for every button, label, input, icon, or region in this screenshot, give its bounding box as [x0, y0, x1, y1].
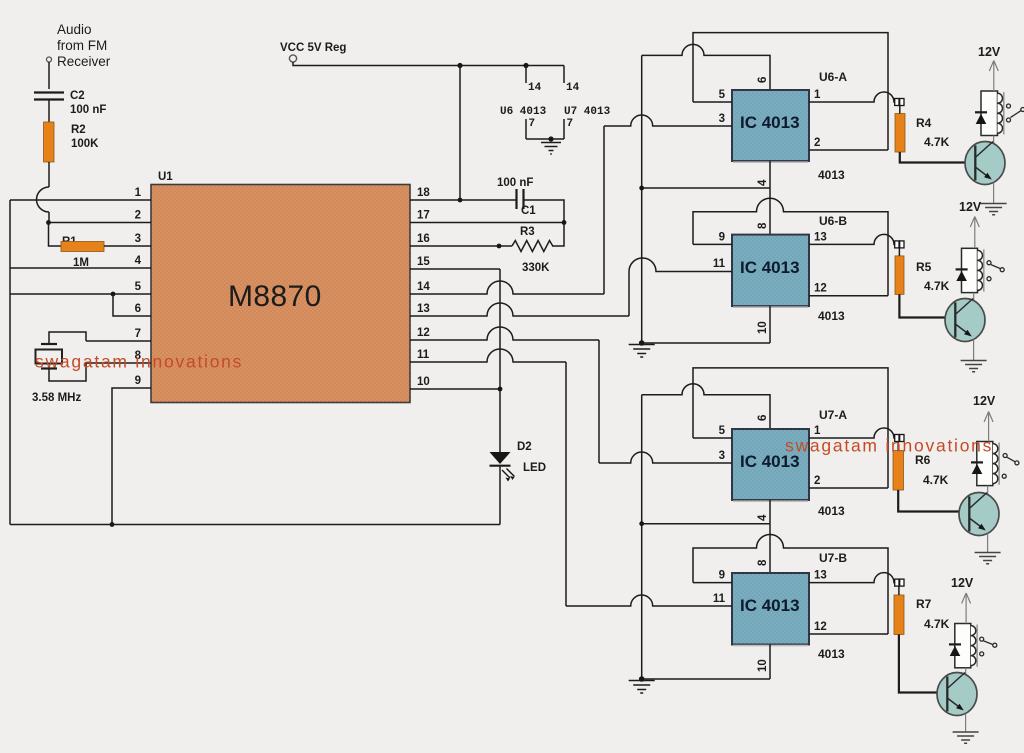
- svg-text:100K: 100K: [71, 138, 99, 150]
- pin label 11: [417, 349, 430, 361]
- wire pin 4 U6-A: [769, 161, 771, 188]
- svg-text:7: 7: [135, 328, 141, 340]
- label R6: [915, 453, 931, 467]
- svg-text:18: 18: [417, 187, 430, 199]
- svg-text:14: 14: [566, 82, 580, 94]
- resistor R1: [61, 242, 104, 252]
- label U6-B: [819, 214, 847, 228]
- wire U6 set-reset ground rail: [641, 55, 643, 343]
- label 4013 U7-B: [818, 647, 845, 661]
- svg-text:14: 14: [528, 82, 542, 94]
- svg-text:12V: 12V: [951, 576, 974, 590]
- wire pin 5 U7-A: [693, 437, 732, 439]
- wire pin 13 with hop: [410, 303, 629, 316]
- pin label 5 U6-A: [719, 89, 726, 101]
- svg-text:3: 3: [135, 233, 141, 245]
- wire Q4 emitter: [965, 714, 967, 732]
- wire pin 1 U7-A with hop: [809, 428, 895, 438]
- pin label 14: [417, 281, 430, 293]
- svg-text:9: 9: [135, 375, 141, 387]
- wire pin 7: [86, 340, 151, 342]
- label 4013 U6-A: [818, 168, 845, 182]
- diode D RL3: [971, 462, 983, 474]
- svg-text:100 nF: 100 nF: [497, 177, 533, 189]
- relay RL4 contacts: [980, 637, 997, 656]
- svg-text:U7-B: U7-B: [819, 551, 847, 565]
- label R7: [916, 597, 932, 611]
- wire pin12 dropper to U7-A clock: [598, 340, 600, 463]
- pin label 15: [417, 256, 430, 268]
- arrow 12V supply 1: [989, 61, 998, 92]
- label 12V supply 1: [978, 45, 1001, 59]
- label 3.58 MHz: [32, 392, 81, 404]
- pin label 10: [417, 376, 430, 388]
- connector marker R5: [895, 241, 904, 248]
- wire pin 15: [410, 268, 500, 270]
- LED D2 emission arrows: [502, 469, 515, 482]
- crystal X1 body: [36, 350, 63, 364]
- label U6-A: [819, 70, 847, 84]
- svg-text:U6 4013: U6 4013: [500, 106, 547, 118]
- wire pin 9 U7-B: [693, 582, 732, 584]
- svg-text:12V: 12V: [959, 200, 982, 214]
- IC U7-A body: [732, 429, 809, 501]
- node VCC to pin18: [457, 63, 462, 68]
- label IC 4013 U6-A: [740, 113, 800, 132]
- arrow 12V supply 2: [970, 217, 979, 249]
- wire junction down to R1: [49, 223, 62, 247]
- node pin 18: [458, 198, 463, 203]
- svg-text:14: 14: [417, 281, 430, 293]
- pin label 12 U7-B: [814, 621, 827, 633]
- wire pin 9: [112, 388, 151, 525]
- svg-text:330K: 330K: [522, 262, 550, 274]
- pin label 3 U7-A: [719, 450, 725, 462]
- svg-text:swagatam innovations: swagatam innovations: [35, 352, 243, 372]
- wire Q1 emitter: [993, 183, 995, 204]
- transistor Q1: [965, 142, 1005, 185]
- svg-text:12V: 12V: [973, 394, 996, 408]
- relay RL3 contacts: [1002, 454, 1019, 479]
- diode D RL1: [975, 112, 987, 124]
- wire R2 to hop: [48, 162, 50, 187]
- resistor R3 zigzag: [512, 241, 553, 252]
- crystal X1 top bracket: [49, 332, 86, 343]
- wire pin 11 with hop: [410, 349, 566, 362]
- label R4: [916, 116, 932, 130]
- relay RL2 body: [962, 248, 978, 292]
- pin label 6: [135, 303, 141, 315]
- wire VCC rail: [293, 62, 564, 66]
- wire pin11 dropper to U7-B clock: [565, 362, 567, 606]
- wire U7-A set line with hop: [642, 384, 770, 429]
- label C1: [521, 205, 536, 217]
- MIDDLE WIRING: [280, 42, 629, 606]
- label 12V supply 2: [959, 200, 982, 214]
- wire pin 8 U7-B: [769, 524, 771, 573]
- node pin 16: [497, 244, 502, 249]
- svg-text:VCC 5V Reg: VCC 5V Reg: [280, 42, 346, 54]
- svg-text:4013: 4013: [818, 504, 845, 518]
- svg-text:D2: D2: [517, 441, 532, 453]
- node pin 10 LED junction: [498, 387, 503, 392]
- ground Q1: [981, 204, 1007, 215]
- label 4013 U6-B: [818, 309, 845, 323]
- svg-text:5: 5: [719, 89, 726, 101]
- node U6 pin4 junction: [639, 186, 644, 191]
- wire pin 9 U6-B: [693, 243, 732, 245]
- svg-text:6: 6: [757, 77, 769, 83]
- svg-text:12: 12: [814, 621, 827, 633]
- wire U6 reset rail: [642, 187, 770, 189]
- svg-text:U7 4013: U7 4013: [564, 106, 611, 118]
- svg-text:13: 13: [814, 231, 827, 243]
- pin label 17: [417, 210, 430, 222]
- pin label 5: [135, 281, 142, 293]
- pin label 14 U7: [566, 82, 580, 94]
- pin label 10 U6-B: [757, 321, 769, 334]
- diode D RL2: [956, 269, 968, 281]
- crystal X1 top plate: [41, 343, 57, 345]
- svg-text:3: 3: [719, 113, 725, 125]
- crystal X1 bottom bracket: [49, 363, 86, 381]
- label D2: [517, 441, 532, 453]
- node pin9 ground junction: [110, 522, 115, 527]
- capacitor C2: [34, 93, 64, 123]
- wire pin 11 U7-B with hop: [566, 595, 732, 606]
- svg-text:R3: R3: [520, 226, 535, 238]
- wire U7 reset rail: [642, 523, 770, 525]
- wire pin 13 U7-B with hop: [809, 573, 895, 583]
- label U6 4013: [500, 106, 547, 118]
- svg-text:Audio: Audio: [57, 22, 92, 37]
- svg-text:6: 6: [757, 415, 769, 421]
- wire pin14 riser to U6-A clock: [603, 126, 605, 294]
- svg-text:4: 4: [757, 179, 769, 186]
- node pin2 junction: [46, 220, 51, 225]
- label Audio from FM Receiver: [57, 22, 111, 69]
- pin label 2: [135, 210, 141, 222]
- label 1M: [73, 257, 89, 269]
- pin label 4 U6-A: [757, 179, 769, 186]
- pin label 4 U7-A: [757, 514, 769, 521]
- wire pin 12 U6-B: [809, 295, 888, 297]
- svg-text:Receiver: Receiver: [57, 54, 111, 69]
- wire Q2 emitter: [973, 340, 975, 361]
- wire U6 pin 7 stub: [525, 119, 527, 139]
- pin label 1: [135, 187, 142, 199]
- ground Q3: [975, 553, 1001, 564]
- svg-text:4.7K: 4.7K: [924, 135, 950, 149]
- svg-text:M8870: M8870: [228, 280, 322, 313]
- VCC terminal: [289, 55, 296, 62]
- pin label 1 U6-A: [814, 89, 821, 101]
- connector marker R4: [895, 99, 904, 106]
- diode D RL4: [949, 644, 961, 656]
- svg-text:9: 9: [719, 231, 725, 243]
- svg-text:12: 12: [417, 327, 430, 339]
- wire pin17 node to R3: [552, 223, 564, 247]
- pin label 16: [417, 233, 430, 245]
- wire pin 4 U7-A: [769, 500, 771, 524]
- wire pin 8 U6-B: [769, 188, 771, 235]
- svg-text:U7-A: U7-A: [819, 408, 847, 422]
- wire pin 1 U6-A with hop: [809, 92, 895, 102]
- U7 SECTION: [566, 368, 1019, 743]
- label 4.7K R6: [923, 473, 949, 487]
- svg-text:LED: LED: [523, 462, 546, 474]
- svg-text:4013: 4013: [818, 168, 845, 182]
- watermark swagatam innovations right: [785, 436, 993, 456]
- wire LED to ground rail: [499, 466, 501, 525]
- label IC 4013 U7-A: [740, 452, 800, 471]
- svg-text:15: 15: [417, 256, 430, 268]
- pin label 7: [135, 328, 141, 340]
- transistor Q4: [937, 673, 977, 716]
- label IC 4013 U7-B: [740, 596, 800, 615]
- resistor R4: [895, 106, 905, 153]
- pin label 5 U7-A: [719, 425, 726, 437]
- svg-text:R4: R4: [916, 116, 932, 130]
- pin label 7 U6: [529, 118, 536, 130]
- connector marker R6: [895, 435, 904, 442]
- wire pin15 LED column: [499, 269, 501, 452]
- wire RL3 to Q3 collector: [987, 486, 989, 494]
- wire pin 16: [410, 245, 512, 247]
- svg-text:1: 1: [814, 89, 821, 101]
- pin label 14 U6: [528, 82, 542, 94]
- svg-text:11: 11: [713, 593, 726, 605]
- wire R4 to Q1 base: [900, 152, 965, 163]
- pin label 7 U7: [567, 118, 574, 130]
- label LED: [523, 462, 546, 474]
- resistor R2: [44, 122, 55, 162]
- label 12V supply 4: [951, 576, 974, 590]
- relay RL4 coil: [971, 625, 977, 667]
- watermark swagatam innovations left: [35, 352, 243, 372]
- wire pin 11 U6-B with hop: [629, 258, 732, 272]
- svg-text:2: 2: [814, 475, 820, 487]
- relay RL1 coil: [998, 92, 1004, 135]
- svg-text:IC 4013: IC 4013: [740, 113, 800, 132]
- node power ground junction: [548, 136, 553, 141]
- svg-text:4.7K: 4.7K: [924, 617, 950, 631]
- wire U7-A top loop: [693, 368, 888, 488]
- ground Q2: [961, 361, 987, 372]
- svg-text:5: 5: [135, 281, 142, 293]
- wire U7 pin 7 stub: [563, 119, 565, 139]
- wire U6 pin 14 stub: [525, 66, 527, 84]
- svg-text:R5: R5: [916, 260, 932, 274]
- svg-text:3.58 MHz: 3.58 MHz: [32, 392, 81, 404]
- LED D2 triangle: [490, 452, 511, 464]
- LEFT INPUT SECTION: [32, 22, 111, 404]
- relay RL2 contacts: [987, 261, 1004, 281]
- svg-text:10: 10: [417, 376, 430, 388]
- transistor Q3: [959, 493, 999, 536]
- svg-text:5: 5: [719, 425, 726, 437]
- svg-text:4: 4: [757, 514, 769, 521]
- wire terminal to C2: [48, 62, 50, 89]
- label IC 4013 U6-B: [740, 258, 800, 277]
- transistor Q2: [945, 299, 985, 342]
- pin label 13: [417, 303, 430, 315]
- pin label 9 U6-B: [719, 231, 725, 243]
- svg-text:7: 7: [529, 118, 536, 130]
- svg-text:IC 4013: IC 4013: [740, 596, 800, 615]
- wire pin 2 U7-A: [809, 487, 888, 489]
- wire pin 2 U6-A: [809, 149, 888, 151]
- relay RL1 contacts: [1007, 104, 1024, 122]
- svg-text:2: 2: [814, 137, 820, 149]
- wire U7 set-reset ground rail: [641, 395, 643, 679]
- svg-text:IC 4013: IC 4013: [740, 258, 800, 277]
- wire pin 3 U7-A with hop: [599, 452, 732, 463]
- svg-text:12V: 12V: [978, 45, 1001, 59]
- pin label 11 U7-B: [713, 593, 726, 605]
- relay RL1 body: [981, 91, 998, 136]
- ground Q4: [953, 732, 979, 743]
- svg-text:7: 7: [567, 118, 574, 130]
- wire pin 13 U6-B with hop: [809, 234, 895, 244]
- label U1: [158, 171, 173, 183]
- IC U1 M8870 body: [151, 185, 410, 403]
- pin label 8 U7-B: [757, 559, 769, 566]
- relay RL3 body: [977, 442, 993, 486]
- pin label 8 U6-B: [757, 222, 769, 229]
- label 4.7K R5: [924, 279, 950, 293]
- svg-text:U1: U1: [158, 171, 173, 183]
- pin label 11 U6-B: [713, 258, 726, 270]
- svg-text:16: 16: [417, 233, 430, 245]
- wire U6-A top loop: [693, 33, 888, 150]
- wire bottom ground rail: [10, 524, 500, 526]
- wire pin 10 U7-B: [769, 645, 771, 680]
- wire U7 pin 14 stub: [563, 66, 565, 84]
- wire R7 to Q4 base: [899, 635, 937, 693]
- svg-text:13: 13: [814, 570, 827, 582]
- wire RL2 to Q2 collector: [973, 293, 975, 300]
- svg-text:11: 11: [417, 349, 430, 361]
- pin label 2 U6-A: [814, 137, 820, 149]
- label M8870: [228, 280, 322, 313]
- pin label 12: [417, 327, 430, 339]
- svg-text:11: 11: [713, 258, 726, 270]
- wire pin 17: [410, 222, 564, 224]
- resistor R6: [893, 442, 904, 491]
- ground U6 rail: [629, 340, 655, 357]
- IC U6-A body: [732, 90, 809, 162]
- label R5: [916, 260, 932, 274]
- svg-text:4.7K: 4.7K: [924, 279, 950, 293]
- wire pin 8: [86, 362, 151, 364]
- label 4.7K R4: [924, 135, 950, 149]
- svg-text:12: 12: [814, 283, 827, 295]
- relay RL3 coil: [993, 443, 999, 485]
- svg-text:9: 9: [719, 570, 725, 582]
- svg-text:swagatam innovations: swagatam innovations: [785, 436, 993, 456]
- wire pin 18: [410, 199, 516, 201]
- pin label 3 U6-A: [719, 113, 725, 125]
- ground power block: [541, 143, 561, 155]
- node VCC to U6 pin14: [523, 63, 528, 68]
- label VCC 5V Reg: [280, 42, 346, 54]
- svg-text:100 nF: 100 nF: [70, 104, 106, 116]
- label 330K: [522, 262, 550, 274]
- pin label 6 U7-A: [757, 415, 769, 421]
- node pin 17: [562, 220, 567, 225]
- label 100 nF: [497, 177, 533, 189]
- svg-text:8: 8: [757, 222, 769, 229]
- wire VCC down to pin 18: [459, 66, 461, 201]
- svg-text:3: 3: [719, 450, 725, 462]
- wire pin 10 U6-B: [769, 306, 771, 343]
- arrow 12V supply 4: [962, 593, 971, 624]
- pin label 6 U6-A: [757, 77, 769, 83]
- wire pin 12 U7-B: [809, 633, 888, 635]
- pin label 9 U7-B: [719, 570, 725, 582]
- arrow 12V supply 3: [984, 412, 993, 442]
- pin label 10 U7-B: [757, 659, 769, 672]
- pin label 13 U6-B: [814, 231, 827, 243]
- svg-text:8: 8: [757, 559, 769, 566]
- svg-text:U6-B: U6-B: [819, 214, 847, 228]
- connector marker R7: [895, 579, 904, 586]
- label R1: [62, 236, 77, 248]
- wire pin 4: [10, 267, 151, 269]
- capacitor C1: [517, 189, 524, 209]
- wire pin 10: [410, 388, 500, 390]
- wire RL1 to Q1 collector: [993, 136, 995, 144]
- label U7-A: [819, 408, 847, 422]
- svg-text:4013: 4013: [818, 309, 845, 323]
- label U7 4013: [564, 106, 611, 118]
- wire U6-B reset to ground: [642, 342, 770, 344]
- wire R6 to Q3 base: [898, 490, 959, 512]
- pin label 13 U7-B: [814, 570, 827, 582]
- wire pin 5: [10, 293, 151, 295]
- LED D2 cathode bar: [490, 465, 511, 467]
- svg-text:17: 17: [417, 210, 430, 222]
- svg-text:1: 1: [135, 187, 142, 199]
- pin label 9: [135, 375, 141, 387]
- svg-text:R7: R7: [916, 597, 932, 611]
- wire U6 U7 ground rail: [526, 138, 564, 140]
- IC U6-B body: [732, 235, 809, 308]
- svg-text:10: 10: [757, 321, 769, 334]
- label 4013 U7-A: [818, 504, 845, 518]
- wire hop over pin1 line: [37, 187, 49, 212]
- wire hop to pin2 junction: [48, 212, 50, 223]
- pin label 4: [135, 255, 142, 267]
- wire U7-B reset to ground: [642, 678, 770, 680]
- label C2 100 nF: [70, 90, 106, 116]
- relay RL4 body: [955, 624, 971, 668]
- wire pin 5 U6-A: [693, 101, 732, 103]
- U6 SECTION: [604, 33, 1024, 372]
- wire RL4 to Q4 collector: [965, 668, 967, 674]
- ground U7 rail: [629, 676, 655, 693]
- wire left rail: [9, 200, 11, 525]
- wire C1 to pin17 node: [524, 200, 564, 223]
- wire R5 to Q2 base: [899, 294, 945, 317]
- M8870 SECTION: [10, 171, 500, 527]
- resistor R5: [895, 248, 904, 295]
- svg-text:1M: 1M: [73, 257, 89, 269]
- label 12V supply 3: [973, 394, 996, 408]
- svg-text:C2: C2: [70, 90, 85, 102]
- label R2 100K: [71, 124, 99, 150]
